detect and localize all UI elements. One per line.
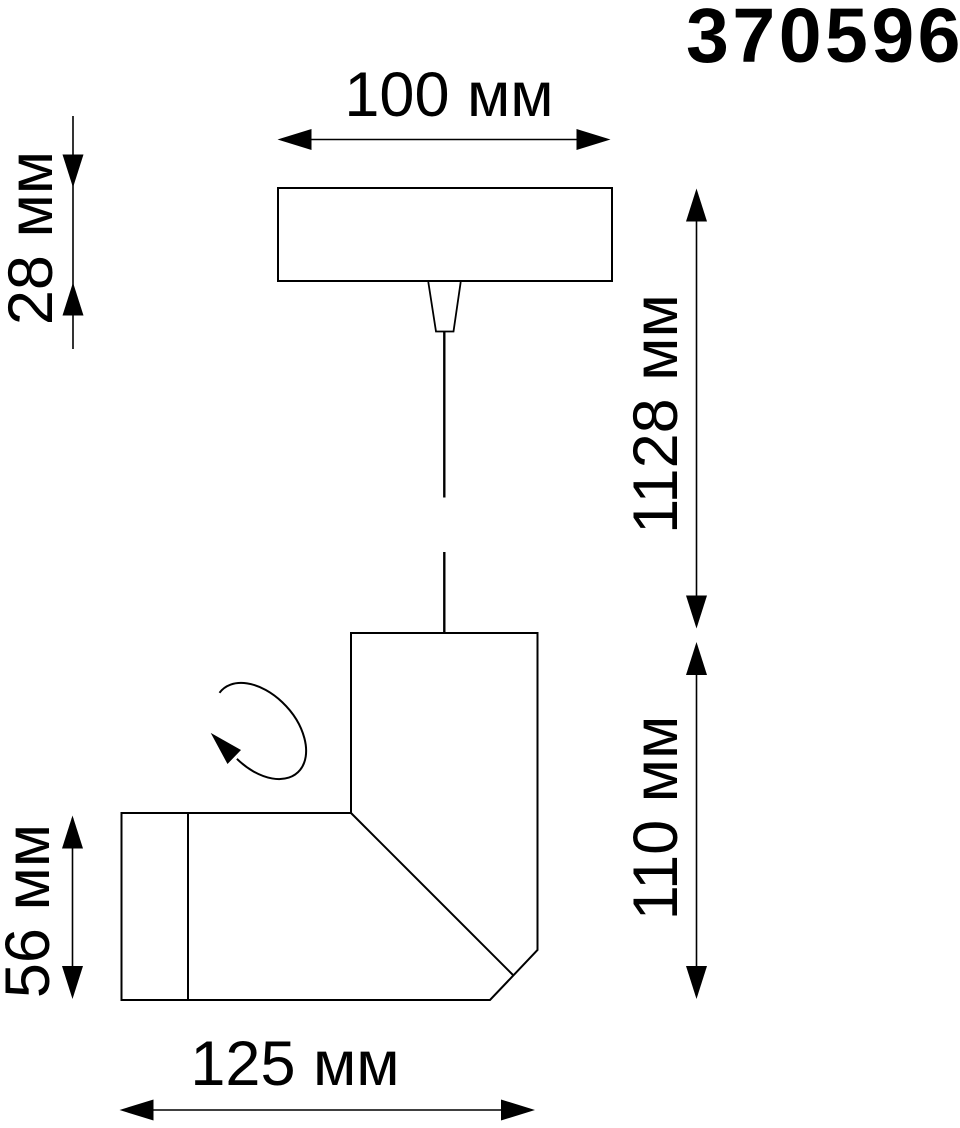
- cord grip trapezoid: [428, 282, 460, 332]
- dimension arrow 125 мм: [120, 1100, 536, 1121]
- lamp rear cap line: [187, 813, 189, 1000]
- cord lower segment: [443, 552, 445, 633]
- lamp body outline: [122, 633, 538, 1000]
- canopy rectangle: [278, 188, 612, 281]
- svg-text:56 мм: 56 мм: [0, 824, 63, 998]
- lamp joint diagonal: [351, 813, 513, 975]
- svg-text:110 мм: 110 мм: [621, 716, 691, 921]
- dimension arrow 100 мм: [278, 129, 611, 150]
- svg-text:1128 мм: 1128 мм: [621, 294, 691, 534]
- dimension arrow 1128 мм: [686, 189, 707, 629]
- cord upper segment: [443, 332, 445, 498]
- svg-text:28 мм: 28 мм: [0, 151, 66, 325]
- svg-text:125 мм: 125 мм: [190, 1029, 399, 1099]
- dimension arrow 56 мм: [62, 816, 83, 1000]
- svg-text:370596: 370596: [686, 0, 960, 79]
- svg-text:100 мм: 100 мм: [344, 60, 553, 130]
- dimension arrow 28 мм: [63, 116, 84, 349]
- rotation arrow: [211, 683, 306, 779]
- dimension arrow 110 мм: [686, 642, 707, 999]
